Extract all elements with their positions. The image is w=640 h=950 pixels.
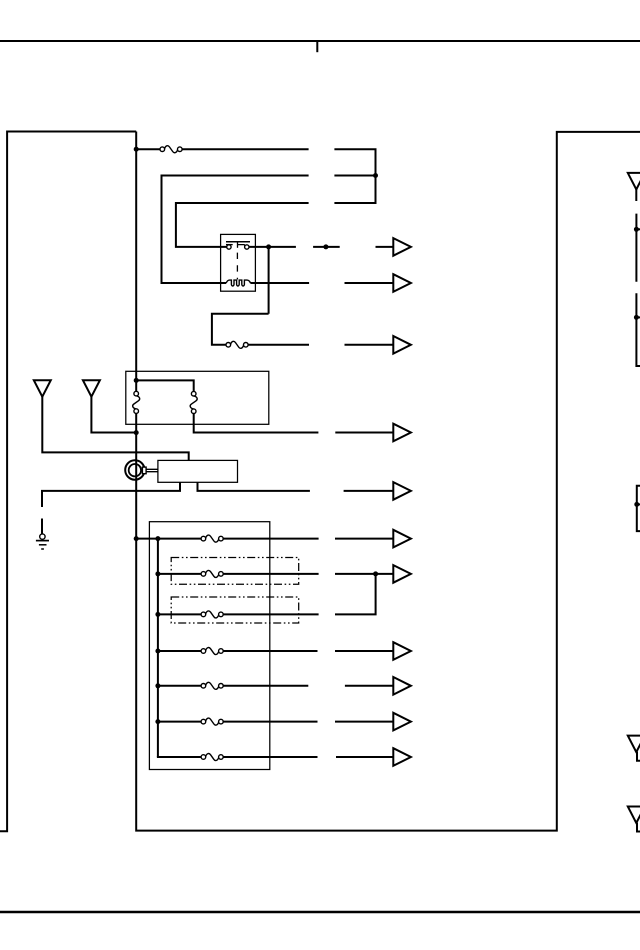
wire row2 right [223,573,319,575]
center component box left edge (upper bus segment) [135,132,137,392]
center component box (lower-left edge, bottom, right edge) and right box top edge [136,132,640,831]
wire row1 to arrow [335,538,393,540]
node right bracket [634,502,639,507]
vertical fuse VF2 [190,391,197,413]
fuse rowA [160,146,182,153]
node contact-out [266,244,271,249]
wire row A to gap [182,148,309,150]
motor shaft tab [142,467,146,474]
relay contact center stub [237,242,239,248]
wire right node2 stub [636,316,640,318]
motor M1 inner circle [129,464,141,476]
ground terminal circle [40,534,45,539]
relay contact left cap [226,244,233,246]
wire drive unit left leg to ground wire [41,482,180,491]
wire coil-box top link [136,380,194,391]
wire contact mid segment [313,246,340,248]
wire row5 right [223,685,308,687]
fuse row1 [201,535,223,542]
antenna A2 stem and feed wire [91,397,136,433]
motor mechanical link double line [146,469,158,471]
connector arrow 5 [393,482,411,500]
wire row A right segment with corner down to row C [334,149,375,203]
wire row3 left [159,613,201,615]
node inner bus r6 [155,719,160,724]
antenna A1 stem and feed wire [42,397,188,461]
left component box (clipped at page edge) [0,132,136,832]
relay armature dashed link [236,253,238,280]
wire right bracket [637,486,640,531]
wire row2 left [159,573,201,575]
fuse row7 [201,754,223,761]
antenna R1 [628,736,640,753]
node bus row1 [134,536,139,541]
node bus-A2 [134,430,139,435]
node rows ABC junction [373,173,378,178]
fuse row5 [201,682,223,689]
wire relay coil out [250,282,309,284]
node inner bus r4 [155,649,160,654]
relay U1 box [221,234,256,291]
node contact mid [323,244,328,249]
top border tick [316,41,318,52]
antenna R1 stem [637,752,640,761]
wire VF2 down and out [194,414,319,433]
wire row C with corner down to relay contact [176,203,309,247]
antenna drive unit box [158,460,238,482]
antenna R2 stem [637,823,640,832]
antenna A2 [83,380,100,397]
wire row7 to arrow [336,756,393,758]
fuse row3b [201,611,223,618]
ground bar 1 [36,540,49,542]
node inner bus r2 [155,571,160,576]
relay contact right bar hook [238,245,246,247]
fuse F2 row3 [226,341,248,348]
connector arrow 7 [393,565,411,583]
wire row2 to arrow [335,573,393,575]
wire row B with corner down to relay coil [162,176,309,284]
node inner bus r5 [155,683,160,688]
wire row1 left [137,538,201,540]
wire row 490 to arrow [344,490,393,492]
wire right drop segment 2 with corner out [636,293,640,366]
relay contact terminal circle left [227,245,231,249]
relay coil [226,280,250,286]
antenna R0 stem [635,189,637,201]
connector arrow 8 [393,642,411,660]
connector arrow 2 [393,274,411,292]
fuse block box [149,522,269,770]
relay contact bar [226,241,250,243]
relay contact terminal circle right [245,245,249,249]
fuse row4 [201,648,223,655]
ground dashed stem [41,490,43,535]
wire contact to arrow [376,246,393,248]
wire row A from bus [137,148,160,150]
wire row4 left [159,650,201,652]
connector arrow 6 [393,530,411,548]
node inner bus r1 [155,536,160,541]
page top border [0,40,640,42]
node row2-row3 join [373,571,378,576]
wire drive unit right leg out [198,482,310,491]
node bus-rowA [134,147,139,152]
wire right node1 stub [636,228,640,230]
ground bar 2 [39,544,47,546]
coil unit box [126,371,269,424]
wire row6 to arrow [335,721,393,723]
fuse row6 [201,718,223,725]
vertical fuse VF1 on bus [133,391,140,413]
node right seg2 [634,315,639,320]
connector arrow 11 [393,748,411,766]
motor M1 outer ring [125,460,144,479]
wire bracket node stub [637,503,640,505]
wire row3 riser to row2 [335,574,376,615]
wire row3 right [223,613,319,615]
wire row6 right [223,721,317,723]
antenna A1 [34,380,51,397]
ground bar 3 [41,548,44,550]
antenna R0 top right [628,173,640,190]
connector arrow 4 [393,424,411,442]
wire coil row to arrow [345,282,393,284]
wire row6 left [159,721,201,723]
antenna R2 [628,807,640,824]
wire row5 to arrow [345,685,393,687]
node inner bus r3 [155,612,160,617]
inner bus of fuse block [157,539,159,757]
wire row B right segment [334,175,375,177]
wire row5 left [159,685,201,687]
connector arrow 9 [393,677,411,695]
shield dash-dot box 2 [171,597,299,623]
shield dash-dot box 1 [171,558,299,585]
page bottom border [0,911,640,913]
wire fuse row3 out [248,344,309,346]
wire row7 right [223,756,317,758]
node bus coil-box [134,378,139,383]
connector arrow 1 [393,238,411,256]
fuse row2 [201,570,223,577]
wire row7 left from bus corner [158,756,201,757]
wire row4 right [223,650,317,652]
wire row3 to arrow [345,344,393,346]
wire right drop segment 1 [635,214,637,282]
wire row4 to arrow [335,650,393,652]
connector arrow 10 [393,713,411,731]
wire row 432 to arrow [335,432,392,434]
wire row1 right [223,538,319,540]
connector arrow 3 [393,336,411,354]
node right seg1 [634,227,639,232]
wire relay contact out with vertical drop and fuse feed [212,247,296,345]
